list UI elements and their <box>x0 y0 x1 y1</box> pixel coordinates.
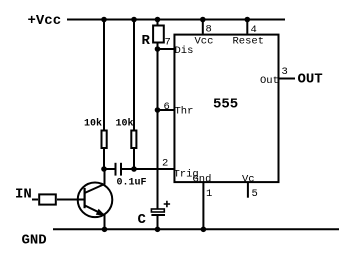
wire pin 5 Vc stub <box>247 183 249 198</box>
node dot rail R <box>155 17 161 23</box>
svg-text:IN: IN <box>15 187 32 203</box>
transistor Q1 emitter arrow <box>96 209 106 216</box>
svg-text:555: 555 <box>213 97 238 113</box>
node dot rail left 10k <box>101 17 107 23</box>
wire trig left segment <box>104 168 115 170</box>
svg-text:Dis: Dis <box>175 45 194 57</box>
node dot trig right <box>131 166 137 172</box>
wire trig right segment to pin 2 <box>122 168 175 170</box>
wire collector vertical <box>104 169 106 185</box>
capacitor C2 0.1uF right plate <box>120 163 122 176</box>
svg-text:Vcc: Vcc <box>195 36 214 48</box>
resistor input series <box>39 194 56 204</box>
svg-text:10k: 10k <box>84 118 102 130</box>
wire right 10k top <box>133 20 135 131</box>
capacitor C plus sign <box>164 201 170 208</box>
svg-text:OUT: OUT <box>298 72 323 88</box>
resistor R1 10k left <box>102 131 107 149</box>
svg-text:GND: GND <box>22 233 47 249</box>
svg-text:6: 6 <box>164 101 170 113</box>
wire pin 3 out <box>279 78 296 80</box>
wire pin 8 stub <box>202 20 204 34</box>
resistor R <box>153 26 164 43</box>
wire GND rail <box>53 228 339 230</box>
svg-text:C: C <box>138 212 147 228</box>
svg-text:R: R <box>142 33 151 49</box>
wire left 10k top <box>103 20 105 131</box>
resistor R2 10k right <box>131 131 136 149</box>
wire emitter vertical <box>104 215 106 230</box>
node dot Thr <box>155 107 161 113</box>
svg-text:Thr: Thr <box>175 106 194 118</box>
op-amp U1 555 IC box <box>174 35 278 183</box>
wire IN stub <box>32 199 38 201</box>
wire pin 1 Gnd to rail <box>202 183 204 229</box>
wire left 10k bottom <box>103 148 105 169</box>
svg-text:Reset: Reset <box>233 36 265 48</box>
node dot rail pin 4 <box>245 17 251 23</box>
node dot R bottom / Dis <box>155 46 161 52</box>
transistor Q1 base bar <box>83 188 85 208</box>
svg-text:0.1uF: 0.1uF <box>117 178 147 189</box>
svg-text:+Vcc: +Vcc <box>28 13 62 29</box>
svg-text:Out: Out <box>260 75 279 87</box>
transistor Q1 emitter diagonal <box>85 205 105 215</box>
capacitor C top plate <box>151 209 164 212</box>
wire base of transistor <box>57 199 85 201</box>
wire pin 7 Dis <box>158 48 176 50</box>
svg-text:Gnd: Gnd <box>193 173 212 185</box>
transistor Q1 collector diagonal <box>85 184 105 193</box>
node dot trig left <box>101 166 107 172</box>
svg-text:8: 8 <box>206 24 212 36</box>
wire pin 6 Thr <box>158 109 176 111</box>
svg-text:4: 4 <box>251 24 257 36</box>
wire pin 4 stub <box>246 20 248 34</box>
node dot capacitor C GND <box>155 227 161 233</box>
wire right 10k bottom <box>133 148 135 169</box>
node dot rail right 10k <box>131 17 137 23</box>
svg-text:2: 2 <box>162 158 168 170</box>
node dot emitter GND <box>102 227 108 233</box>
wire R top stub <box>157 20 159 26</box>
svg-text:7: 7 <box>165 37 171 49</box>
node dot pin1 GND <box>201 227 207 233</box>
svg-text:1: 1 <box>206 188 212 200</box>
transistor Q1 circle <box>78 183 113 218</box>
svg-text:10k: 10k <box>116 118 134 130</box>
wire capacitor C to GND rail <box>157 215 159 229</box>
svg-text:5: 5 <box>252 188 258 200</box>
capacitor C bottom plate <box>151 214 165 216</box>
capacitor C2 0.1uF left plate <box>115 163 117 176</box>
wire R bottom vertical to capacitor C <box>157 43 159 210</box>
wire +Vcc rail <box>67 19 285 21</box>
svg-text:3: 3 <box>282 66 288 78</box>
svg-text:Vc: Vc <box>242 173 255 185</box>
node dot rail pin 8 <box>200 17 206 23</box>
